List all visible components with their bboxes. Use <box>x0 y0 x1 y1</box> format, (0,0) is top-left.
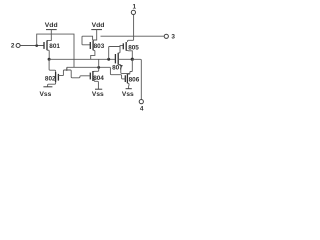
terminal 1 circle <box>131 10 135 14</box>
svg-text:Vss: Vss <box>122 91 134 98</box>
wire gate of 804 left and up to input line <box>67 70 91 78</box>
wire 807 channel top lead up joining 805 gate wire <box>118 46 120 53</box>
wire 807 channel bottom lead down and right to 806 drain node <box>118 65 130 74</box>
wire output line terminal1/terminal3 <box>101 35 164 37</box>
transistor 805 gate bar <box>122 43 124 49</box>
svg-text:804: 804 <box>93 75 104 82</box>
transistor 806 gate bar <box>124 75 126 82</box>
transistor 803 channel bar <box>92 40 94 50</box>
transistor 805 channel bar <box>125 42 127 51</box>
svg-text:Vss: Vss <box>40 91 52 98</box>
wire S-link from rail node up to gate of 805 <box>109 46 124 60</box>
wire output node right and down to terminal 4 <box>132 59 141 99</box>
node rail / 805-gate-wire dot <box>107 58 110 61</box>
svg-text:806: 806 <box>129 77 140 84</box>
power Vdd rail symbol 1 <box>46 29 57 31</box>
transistor 802 gate bar <box>57 74 59 81</box>
wire gate of 802 up to input line <box>58 67 66 75</box>
svg-text:Vdd: Vdd <box>45 22 58 29</box>
transistor 801 channel bar <box>46 40 48 50</box>
wire lower rail <box>49 58 115 60</box>
wire 806 channel top corner <box>127 73 129 76</box>
power Vdd rail symbol 2 <box>91 29 102 31</box>
svg-text:Vdd: Vdd <box>92 22 105 29</box>
node drain 801/802 dot <box>48 58 51 61</box>
ground Vss1 bar <box>43 86 52 88</box>
wire drain of 802 from rail node <box>49 59 56 72</box>
wire 804 drain up to rail <box>93 59 99 71</box>
node input junction dot <box>35 44 38 47</box>
wire gate of 806 staircase up to input line <box>110 67 125 79</box>
wire terminal 1 down across output line to source of 805 <box>128 15 134 42</box>
svg-text:Vss: Vss <box>92 91 104 98</box>
transistor 802 channel bar <box>55 72 57 83</box>
transistor 804 gate bar <box>89 73 91 80</box>
wire 807 to output node <box>119 58 132 60</box>
wire drain of 801 down to rail <box>47 50 49 59</box>
node output dot <box>131 58 134 61</box>
transistor 804 channel bar <box>92 71 94 81</box>
svg-text:4: 4 <box>140 105 144 112</box>
node 804 drain dot <box>97 66 100 69</box>
svg-text:805: 805 <box>128 44 139 51</box>
svg-text:801: 801 <box>49 43 60 50</box>
transistor 807 gate bar <box>114 54 116 63</box>
wire line from input box down to 802/804 drains <box>67 66 111 68</box>
svg-text:3: 3 <box>171 34 175 41</box>
wire Vdd1 stem to source of 801 <box>47 30 51 41</box>
wire input from terminal 2 to gate of 801 <box>20 45 44 47</box>
wire output node down to drain of 806 <box>130 59 132 73</box>
wire input node up and over 801 (box) <box>37 34 74 67</box>
wire source of 806 to Vss3 <box>127 83 129 88</box>
wire drain of 803 down to rail <box>91 50 95 59</box>
wire left end corner of 802 drain line <box>66 67 69 71</box>
terminal 2 circle <box>16 44 20 48</box>
transistor 806 channel bar <box>126 74 128 83</box>
svg-text:802: 802 <box>45 75 56 82</box>
wire source of 802 to Vss1 <box>48 82 56 87</box>
svg-text:2: 2 <box>11 42 15 49</box>
terminal 3 circle <box>164 34 168 38</box>
wire drain of 805 down to output node <box>126 51 132 60</box>
svg-text:1: 1 <box>133 4 137 11</box>
transistor 801 gate bar <box>43 42 45 49</box>
wire source of 804 to Vss2 <box>93 81 99 90</box>
wire gate hook of 803 <box>82 36 93 45</box>
svg-text:807: 807 <box>112 65 123 72</box>
transistor 803 gate bar <box>89 42 91 49</box>
ground Vss3 bar <box>126 88 132 90</box>
terminal 4 circle <box>139 100 143 104</box>
wire Vdd2 stem to source of 803 <box>93 30 97 40</box>
ground Vss2 bar <box>95 88 102 90</box>
svg-text:803: 803 <box>94 43 105 50</box>
transistor 807 channel bar <box>117 53 119 65</box>
